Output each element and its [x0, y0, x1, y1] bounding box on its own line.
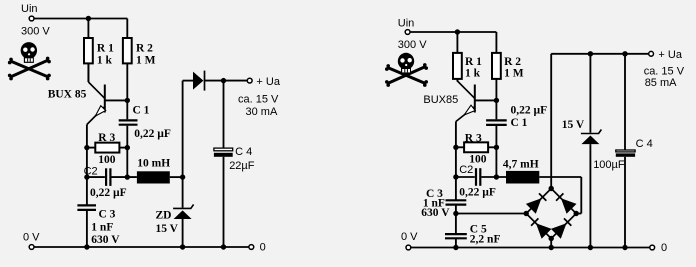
svg-text:R 1: R 1	[465, 56, 482, 68]
svg-text:300 V: 300 V	[398, 39, 427, 51]
svg-text:22µF: 22µF	[229, 160, 255, 172]
svg-text:630 V: 630 V	[421, 207, 450, 219]
svg-text:ZD: ZD	[156, 209, 172, 221]
svg-text:+ Ua: + Ua	[256, 76, 280, 88]
svg-text:R 2: R 2	[504, 56, 521, 68]
svg-text:Uin: Uin	[21, 3, 38, 15]
svg-text:C 1: C 1	[133, 105, 150, 117]
svg-text:300 V: 300 V	[21, 26, 50, 38]
svg-text:15 V: 15 V	[562, 119, 585, 131]
svg-text:1 nF: 1 nF	[91, 221, 113, 233]
svg-text:2,2 nF: 2,2 nF	[470, 233, 501, 245]
svg-text:R 3: R 3	[98, 132, 115, 144]
svg-text:0 V: 0 V	[23, 232, 40, 244]
svg-text:1 M: 1 M	[504, 67, 524, 79]
svg-text:10 mH: 10 mH	[137, 157, 170, 169]
svg-text:0: 0	[260, 241, 266, 253]
svg-text:30 mA: 30 mA	[246, 106, 278, 118]
svg-text:1 k: 1 k	[465, 67, 481, 79]
svg-text:0 V: 0 V	[401, 231, 418, 243]
svg-text:100: 100	[98, 154, 116, 166]
svg-text:C 4: C 4	[235, 146, 252, 158]
svg-text:0,22 µF: 0,22 µF	[459, 187, 496, 199]
svg-text:0: 0	[661, 242, 667, 254]
svg-text:0,22 µF: 0,22 µF	[90, 187, 127, 199]
svg-text:R 1: R 1	[97, 42, 114, 54]
svg-text:85 mA: 85 mA	[645, 77, 677, 89]
svg-text:4,7 mH: 4,7 mH	[503, 158, 539, 170]
svg-text:Uin: Uin	[398, 18, 415, 30]
svg-text:C2: C2	[84, 166, 98, 178]
svg-text:100µF: 100µF	[593, 159, 625, 171]
svg-text:15 V: 15 V	[156, 223, 179, 235]
svg-text:1 M: 1 M	[136, 54, 156, 66]
svg-text:BUX85: BUX85	[423, 94, 458, 106]
svg-text:ca. 15 V: ca. 15 V	[644, 66, 685, 78]
svg-text:630 V: 630 V	[91, 234, 120, 246]
svg-text:C2: C2	[459, 164, 473, 176]
svg-text:+ Ua: + Ua	[658, 49, 682, 61]
svg-text:R 3: R 3	[465, 132, 482, 144]
svg-text:BUX 85: BUX 85	[48, 88, 87, 100]
svg-text:C 1: C 1	[511, 117, 528, 129]
svg-text:C 4: C 4	[636, 138, 653, 150]
svg-text:100: 100	[469, 154, 487, 166]
svg-text:ca. 15 V: ca. 15 V	[238, 94, 279, 106]
svg-text:C 3: C 3	[99, 208, 116, 220]
svg-text:1 k: 1 k	[97, 54, 113, 66]
svg-text:0,22 µF: 0,22 µF	[511, 104, 548, 116]
svg-text:0,22 µF: 0,22 µF	[134, 128, 171, 140]
svg-text:R 2: R 2	[136, 42, 153, 54]
